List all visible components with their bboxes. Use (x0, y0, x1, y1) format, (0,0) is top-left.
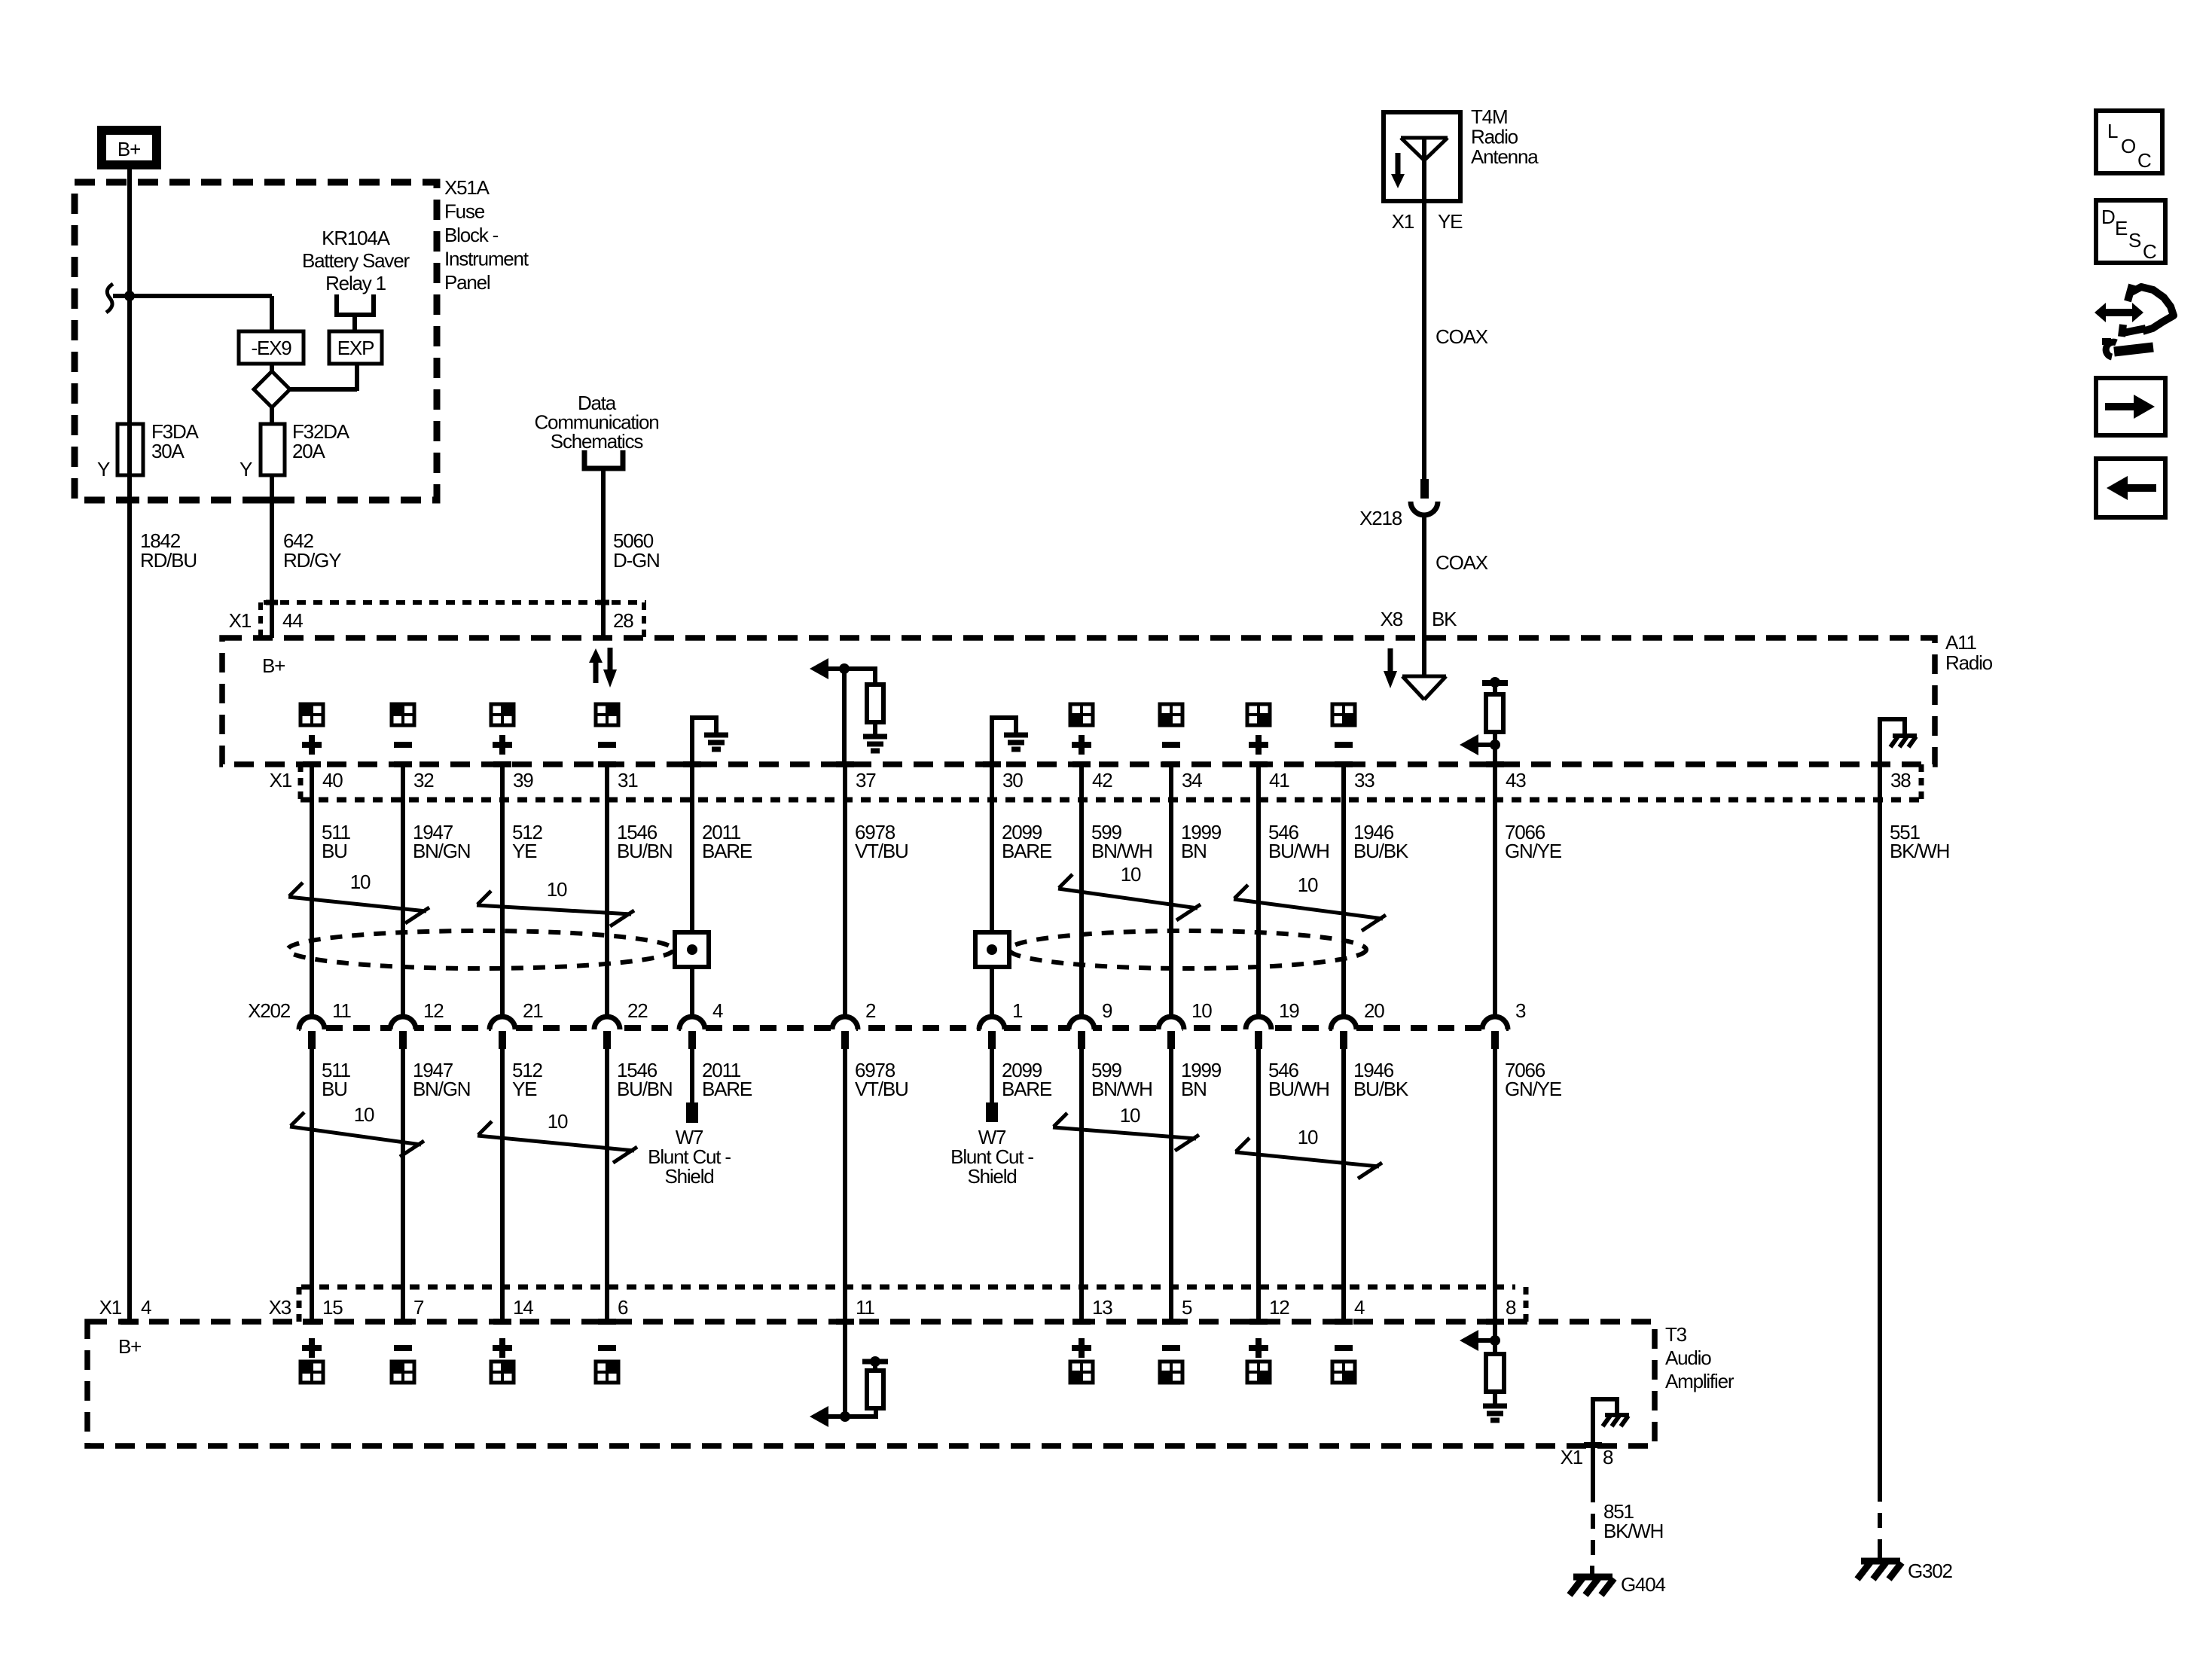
svg-text:RD/BU: RD/BU (140, 549, 197, 572)
svg-text:BN/GN: BN/GN (413, 840, 470, 862)
svg-text:10: 10 (1120, 1104, 1140, 1127)
svg-text:41: 41 (1269, 769, 1289, 791)
svg-text:34: 34 (1182, 769, 1202, 791)
svg-text:22: 22 (627, 999, 648, 1022)
svg-text:Antenna: Antenna (1471, 145, 1539, 168)
svg-text:Y: Y (97, 458, 110, 480)
svg-text:13: 13 (1092, 1296, 1112, 1319)
svg-text:X1: X1 (270, 769, 292, 791)
svg-text:5: 5 (1182, 1296, 1192, 1319)
svg-text:D-GN: D-GN (613, 549, 660, 572)
svg-text:44: 44 (282, 609, 303, 632)
svg-text:39: 39 (513, 769, 533, 791)
svg-text:D: D (2101, 206, 2115, 228)
svg-text:38: 38 (1890, 769, 1911, 791)
svg-text:4: 4 (141, 1296, 151, 1319)
svg-text:28: 28 (613, 609, 633, 632)
svg-text:Panel: Panel (444, 271, 490, 294)
svg-text:4: 4 (712, 999, 723, 1022)
svg-text:Relay 1: Relay 1 (325, 272, 386, 294)
svg-text:-EX9: -EX9 (251, 337, 291, 359)
svg-text:21: 21 (523, 999, 543, 1022)
svg-text:BN/GN: BN/GN (413, 1078, 470, 1100)
svg-text:Schematics: Schematics (551, 430, 644, 453)
svg-text:10: 10 (1298, 1126, 1318, 1148)
svg-text:BN/WH: BN/WH (1091, 840, 1152, 862)
svg-text:20: 20 (1364, 999, 1384, 1022)
svg-text:X51A: X51A (444, 176, 490, 199)
svg-text:43: 43 (1506, 769, 1526, 791)
svg-text:19: 19 (1279, 999, 1299, 1022)
svg-text:GN/YE: GN/YE (1505, 840, 1562, 862)
svg-text:BN: BN (1181, 840, 1207, 862)
svg-text:10: 10 (354, 1103, 374, 1126)
svg-text:40: 40 (322, 769, 343, 791)
svg-text:BK/WH: BK/WH (1603, 1520, 1663, 1542)
svg-text:2: 2 (865, 999, 876, 1022)
svg-text:14: 14 (513, 1296, 533, 1319)
svg-text:BU/WH: BU/WH (1268, 1078, 1329, 1100)
svg-text:15: 15 (322, 1296, 343, 1319)
svg-text:X1: X1 (1561, 1446, 1583, 1468)
svg-text:VT/BU: VT/BU (855, 1078, 908, 1100)
svg-text:Radio: Radio (1945, 651, 1993, 674)
svg-text:6: 6 (618, 1296, 628, 1319)
svg-text:T3: T3 (1665, 1323, 1687, 1346)
svg-text:10: 10 (1298, 874, 1318, 896)
svg-text:7: 7 (413, 1296, 424, 1319)
svg-text:S: S (2128, 229, 2141, 252)
svg-text:12: 12 (423, 999, 444, 1022)
svg-text:BARE: BARE (702, 840, 752, 862)
svg-text:BN: BN (1181, 1078, 1207, 1100)
svg-text:VT/BU: VT/BU (855, 840, 908, 862)
svg-text:BARE: BARE (702, 1078, 752, 1100)
svg-text:RD/GY: RD/GY (283, 549, 341, 572)
svg-text:30: 30 (1002, 769, 1023, 791)
svg-text:G302: G302 (1908, 1560, 1953, 1582)
svg-text:Audio: Audio (1665, 1346, 1711, 1369)
svg-text:8: 8 (1603, 1446, 1613, 1468)
svg-text:31: 31 (618, 769, 638, 791)
svg-text:4: 4 (1354, 1296, 1365, 1319)
svg-text:11: 11 (856, 1296, 874, 1319)
svg-text:BU/BN: BU/BN (617, 1078, 672, 1100)
svg-text:Shield: Shield (967, 1165, 1016, 1188)
svg-text:BARE: BARE (1002, 840, 1052, 862)
svg-text:12: 12 (1269, 1296, 1289, 1319)
svg-text:BARE: BARE (1002, 1078, 1052, 1100)
svg-text:COAX: COAX (1436, 325, 1488, 348)
svg-text:Y: Y (240, 458, 252, 480)
svg-text:T4M: T4M (1471, 105, 1507, 128)
svg-text:10: 10 (1121, 863, 1141, 886)
svg-text:Instrument: Instrument (444, 248, 529, 270)
svg-text:BK: BK (1432, 608, 1457, 630)
svg-text:E: E (2115, 217, 2128, 239)
svg-text:B+: B+ (262, 654, 285, 677)
svg-text:32: 32 (413, 769, 434, 791)
svg-text:Shield: Shield (664, 1165, 713, 1188)
svg-text:G404: G404 (1621, 1573, 1666, 1596)
svg-text:37: 37 (856, 769, 876, 791)
svg-text:BU/BK: BU/BK (1353, 840, 1409, 862)
svg-text:42: 42 (1092, 769, 1112, 791)
svg-text:10: 10 (548, 1110, 568, 1133)
svg-text:X8: X8 (1381, 608, 1403, 630)
svg-text:A11: A11 (1945, 631, 1976, 654)
svg-text:B+: B+ (118, 1335, 141, 1358)
svg-text:EXP: EXP (337, 337, 374, 359)
svg-text:BU: BU (322, 1078, 347, 1100)
svg-text:X1: X1 (1392, 210, 1414, 233)
svg-text:10: 10 (1191, 999, 1212, 1022)
svg-text:YE: YE (1438, 210, 1463, 233)
svg-text:X1: X1 (229, 609, 252, 632)
svg-text:30A: 30A (151, 440, 185, 462)
svg-text:BU/BK: BU/BK (1353, 1078, 1409, 1100)
svg-text:Amplifier: Amplifier (1665, 1370, 1735, 1392)
svg-text:Battery Saver: Battery Saver (302, 249, 410, 272)
svg-text:3: 3 (1515, 999, 1526, 1022)
svg-text:YE: YE (512, 1078, 537, 1100)
svg-text:33: 33 (1354, 769, 1374, 791)
svg-text:8: 8 (1506, 1296, 1516, 1319)
svg-text:C: C (2143, 240, 2156, 263)
svg-text:X3: X3 (269, 1296, 291, 1319)
svg-text:BU: BU (322, 840, 347, 862)
svg-text:GN/YE: GN/YE (1505, 1078, 1562, 1100)
svg-text:B+: B+ (117, 138, 140, 160)
svg-text:20A: 20A (292, 440, 326, 462)
svg-text:KR104A: KR104A (322, 227, 390, 249)
svg-text:Block -: Block - (444, 224, 499, 246)
svg-text:10: 10 (350, 871, 371, 893)
svg-text:11: 11 (332, 999, 351, 1022)
svg-text:9: 9 (1102, 999, 1112, 1022)
svg-text:C: C (2137, 149, 2151, 172)
svg-text:O: O (2121, 135, 2135, 157)
svg-text:X202: X202 (248, 999, 291, 1022)
svg-text:X218: X218 (1359, 507, 1402, 529)
svg-text:YE: YE (512, 840, 537, 862)
svg-text:L: L (2107, 120, 2118, 142)
svg-text:Radio: Radio (1471, 126, 1518, 148)
svg-text:BU/WH: BU/WH (1268, 840, 1329, 862)
svg-text:Fuse: Fuse (444, 200, 485, 223)
svg-text:BN/WH: BN/WH (1091, 1078, 1152, 1100)
svg-text:COAX: COAX (1436, 551, 1488, 574)
svg-text:1: 1 (1012, 999, 1023, 1022)
svg-text:X1: X1 (99, 1296, 122, 1319)
svg-text:BK/WH: BK/WH (1890, 840, 1949, 862)
svg-text:10: 10 (547, 878, 567, 901)
svg-text:BU/BN: BU/BN (617, 840, 672, 862)
